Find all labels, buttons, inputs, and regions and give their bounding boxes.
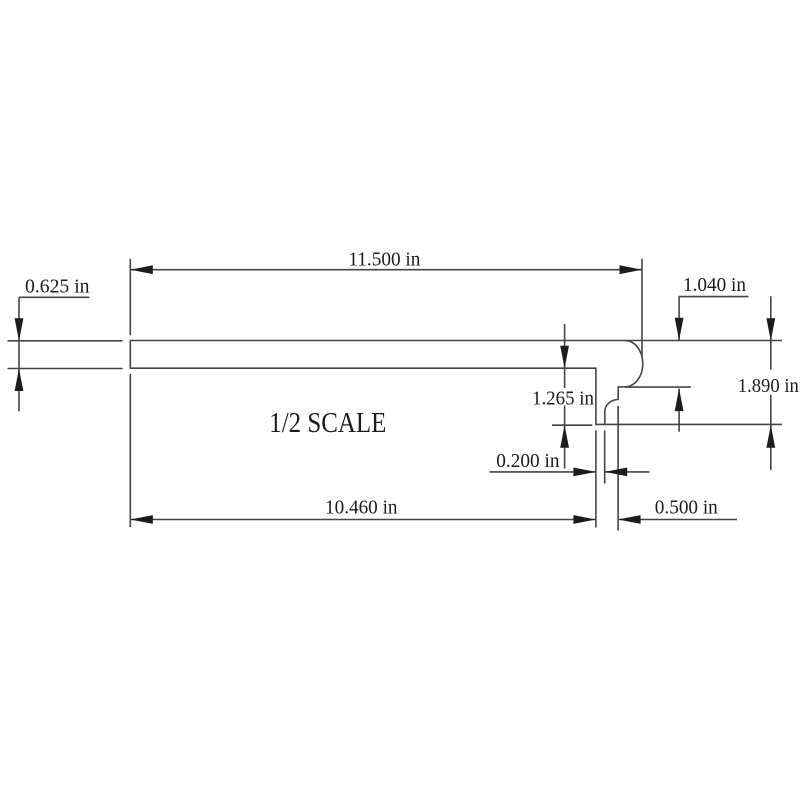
arrowhead 1.265 up — [560, 425, 569, 448]
svg-text:1.040 in: 1.040 in — [683, 274, 746, 296]
dimension 1.040 vertical upper — [678, 297, 680, 341]
extension line under-nose flat right — [625, 386, 691, 388]
dimension line 11.500 in — [130, 269, 642, 271]
arrowhead 10.460 right — [573, 515, 596, 524]
dimension 1.890 vertical lower — [770, 395, 772, 470]
extension line x=642 for 11.500 — [641, 259, 643, 358]
arrowhead 11.500 left — [130, 265, 153, 274]
dimension 1.040 vertical lower — [678, 389, 680, 432]
extension line x=130 for 10.460 — [129, 374, 131, 527]
dimension 1.265 vertical lower — [564, 406, 566, 469]
extension line bottom edge left of leg — [552, 424, 592, 426]
dimension 1.890 vertical upper — [770, 296, 772, 369]
arrowhead 1.890 down — [766, 318, 775, 341]
dimension 0.200 line right segment — [605, 471, 650, 473]
arrowhead 0.625 up — [15, 369, 24, 392]
dimension line 0.500 in — [618, 519, 737, 521]
arrowhead 0.200 right-pointing — [573, 468, 596, 477]
arrowhead 1.040 down — [675, 318, 684, 341]
svg-text:11.500 in: 11.500 in — [348, 248, 420, 270]
dimension line 10.460 in — [130, 519, 596, 521]
extension line top surface right — [625, 340, 782, 342]
extension line bottom surface left — [8, 368, 123, 370]
arrowhead 11.500 right — [620, 265, 643, 274]
extension line top surface left — [8, 340, 123, 342]
dimension 0.625 shoulder — [19, 296, 89, 298]
svg-text:0.625 in: 0.625 in — [25, 275, 90, 297]
extension line x=596 below profile — [595, 430, 597, 527]
dimension 0.200 line left segment — [490, 471, 596, 473]
arrowhead 1.040 up — [675, 389, 684, 412]
dimension 1.040 shoulder — [679, 296, 749, 298]
arrowhead 10.460 left — [130, 515, 153, 524]
extension line x=130 for 11.500 — [129, 259, 131, 336]
arrowhead 0.625 down — [15, 318, 24, 341]
arrowhead 1.890 up — [766, 425, 775, 448]
svg-text:0.500 in: 0.500 in — [655, 496, 718, 518]
arrowhead 0.500 left-pointing — [618, 515, 641, 524]
extension line bottom edge right — [605, 423, 782, 425]
dimension 0.625 vertical line — [18, 297, 20, 411]
svg-text:1/2 SCALE: 1/2 SCALE — [269, 407, 386, 439]
profile outline (molding cross-section) — [130, 341, 643, 425]
svg-text:10.460 in: 10.460 in — [325, 497, 398, 519]
svg-text:1.265 in: 1.265 in — [532, 388, 594, 410]
dimension 1.265 vertical upper — [564, 324, 566, 388]
svg-text:1.890 in: 1.890 in — [738, 375, 799, 397]
arrowhead 0.200 left-pointing — [605, 468, 628, 477]
extension line x=618 below profile — [617, 406, 619, 531]
extension line x=605 below profile — [604, 430, 606, 483]
svg-text:0.200 in: 0.200 in — [496, 450, 559, 472]
arrowhead 1.265 down — [560, 346, 569, 369]
